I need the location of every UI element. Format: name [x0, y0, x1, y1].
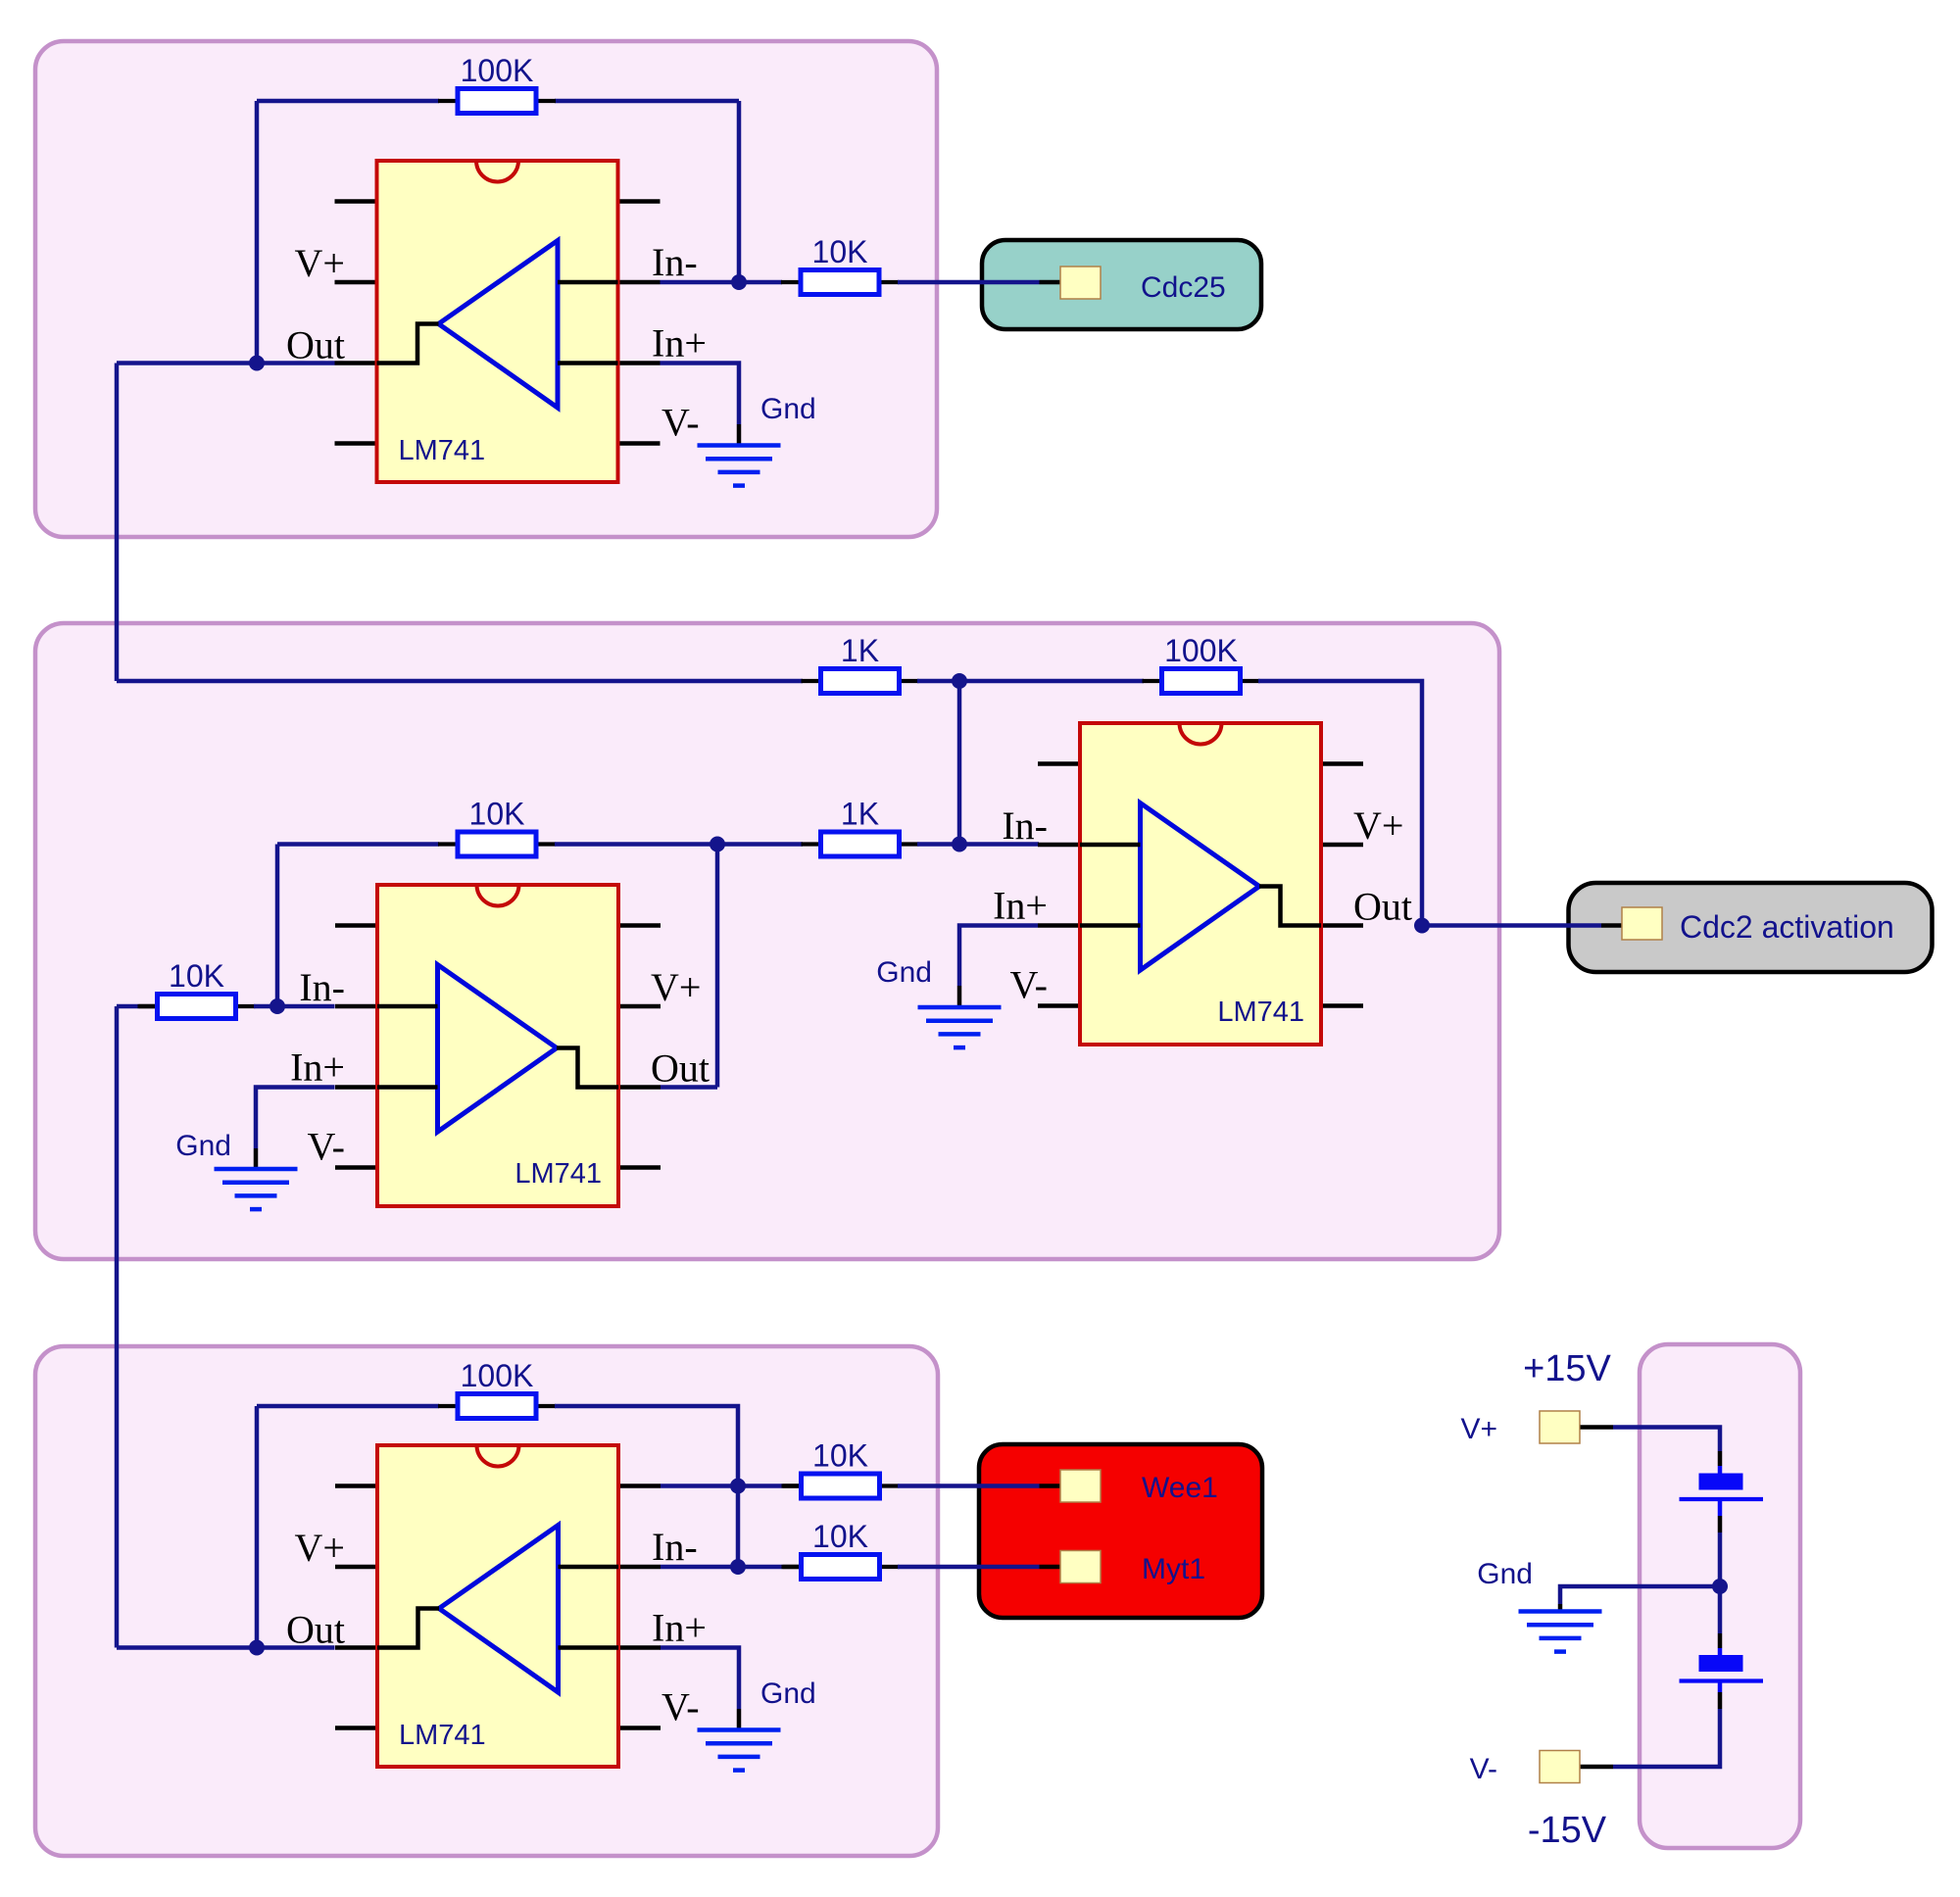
- svg-text:100K: 100K: [461, 53, 534, 88]
- module frame: power supply: [1640, 1344, 1800, 1848]
- wire R3 to node A: [917, 679, 959, 684]
- wire box2 100K run: [959, 679, 1144, 684]
- svg-text:10K: 10K: [812, 234, 868, 269]
- wire U2 feedback left vertical: [275, 845, 280, 1007]
- svg-text:In+: In+: [993, 884, 1048, 928]
- module frame: summing stage (middle): [35, 623, 1499, 1259]
- wire U4 feedback top run: [257, 1404, 439, 1409]
- svg-text:Cdc2 activation: Cdc2 activation: [1680, 909, 1894, 945]
- resistor R3: [802, 669, 919, 694]
- svg-text:In-: In-: [652, 240, 698, 284]
- svg-text:Gnd: Gnd: [175, 1130, 231, 1162]
- output block Cdc2 activation (gray): [1569, 883, 1933, 972]
- wire node D to R9: [738, 1484, 783, 1488]
- wire U2 feedback top run: [277, 842, 439, 847]
- node node B (U3 In- junction): [952, 837, 967, 852]
- wire U4 In+ to ground: [661, 1648, 740, 1710]
- resistor R1: [438, 89, 556, 114]
- resistor R5: [802, 832, 919, 856]
- op-amp U4 (LM741, facing L): [335, 1445, 661, 1767]
- wire Cdc2 black lead: [1601, 923, 1622, 928]
- wire battery1 bottom black lead: [1718, 1516, 1723, 1532]
- svg-text:Gnd: Gnd: [876, 956, 932, 989]
- wire R10 to Myt1: [898, 1565, 1040, 1570]
- resistor R10: [782, 1555, 900, 1580]
- wire V+ black lead: [1581, 1425, 1614, 1430]
- svg-text:Gnd: Gnd: [1477, 1558, 1533, 1590]
- wire U4 out row: [117, 1645, 335, 1650]
- port square Cdc2 port: [1622, 907, 1662, 940]
- node U1 In- junction: [731, 274, 747, 290]
- svg-text:In-: In-: [1002, 803, 1048, 848]
- port square V- port: [1540, 1751, 1580, 1783]
- wire node C to R5: [717, 842, 803, 847]
- wire U1 feedback top run: [257, 99, 439, 104]
- svg-text:In-: In-: [299, 965, 345, 1009]
- op-amp U2 (LM741, facing R): [335, 885, 661, 1206]
- wire U2 In+ to ground: [256, 1088, 335, 1149]
- svg-text:V-: V-: [307, 1125, 345, 1169]
- node U2 In- junction: [269, 998, 285, 1014]
- wire battery1 top black lead: [1718, 1451, 1723, 1466]
- wire U3 In+ to ground: [959, 926, 1038, 987]
- resistor R2: [781, 270, 899, 295]
- svg-text:10K: 10K: [812, 1519, 868, 1554]
- port square Myt1 port: [1060, 1551, 1101, 1583]
- svg-text:In+: In+: [652, 321, 707, 365]
- svg-text:V-: V-: [1470, 1753, 1497, 1785]
- ground ground G2 (U2 In+): [215, 1169, 298, 1209]
- port square Wee1 port: [1060, 1470, 1101, 1502]
- wire R7 to U2 In-: [254, 1004, 335, 1009]
- wire U1 feedback top run right: [555, 99, 739, 104]
- wire battery2 top blue lead: [1718, 1648, 1723, 1656]
- wire battery1 to gnd node: [1718, 1532, 1723, 1586]
- svg-text:LM741: LM741: [399, 1720, 486, 1751]
- module frame: Cdc25 inverter stage (top left): [35, 41, 937, 537]
- wire U2 In+ ground black lead: [254, 1148, 259, 1168]
- svg-text:1K: 1K: [841, 633, 879, 668]
- svg-text:Out: Out: [1353, 885, 1412, 929]
- svg-text:Out: Out: [286, 1608, 345, 1652]
- node U4 node D: [730, 1479, 746, 1494]
- ground ground G1 (U1 In+): [698, 446, 781, 486]
- wire U2 out lead: [661, 1085, 717, 1090]
- svg-text:Gnd: Gnd: [760, 1678, 816, 1710]
- wire U4 pin1 lead: [661, 1484, 738, 1488]
- wire battery2 bottom blue lead: [1718, 1683, 1723, 1693]
- svg-text:In+: In+: [290, 1046, 345, 1090]
- svg-text:V+: V+: [651, 965, 701, 1009]
- module frame: Wee1/Myt1 inverter stage (bottom left): [35, 1346, 938, 1856]
- wire U1 feedback right vertical: [737, 101, 742, 282]
- wire R4 to node C: [555, 842, 717, 847]
- wire node A down to node B: [957, 681, 962, 845]
- wire U1 out to box2 vertical: [115, 364, 120, 682]
- wire battery2 to V-: [1613, 1709, 1720, 1767]
- svg-text:V-: V-: [1009, 963, 1048, 1007]
- wire R7 left black lead: [139, 1004, 156, 1009]
- resistor R8: [438, 1394, 556, 1419]
- ground ground G3 (U3 In+): [918, 1007, 1002, 1047]
- wire U4 In- lead: [661, 1565, 738, 1570]
- wire battery2 bottom black lead: [1718, 1692, 1723, 1709]
- wire node D to In- vertical: [736, 1486, 741, 1568]
- svg-text:V+: V+: [295, 1526, 345, 1570]
- wire U3 In+ ground black lead: [957, 986, 962, 1006]
- ground ground G5 (power): [1519, 1612, 1602, 1652]
- svg-text:Wee1: Wee1: [1142, 1472, 1218, 1504]
- svg-text:Gnd: Gnd: [760, 393, 816, 425]
- wire battery2 top black lead: [1718, 1633, 1723, 1648]
- svg-text:-15V: -15V: [1528, 1810, 1607, 1851]
- svg-text:Cdc25: Cdc25: [1141, 271, 1226, 304]
- wire battery1 bottom blue lead: [1718, 1501, 1723, 1516]
- wire gnd node to battery2: [1718, 1586, 1723, 1633]
- node U4 out junction: [249, 1640, 265, 1656]
- svg-text:10K: 10K: [169, 958, 224, 994]
- svg-text:100K: 100K: [1164, 633, 1238, 668]
- wire U4 In+ ground black lead: [737, 1709, 742, 1729]
- resistor R4: [438, 832, 556, 856]
- svg-text:LM741: LM741: [399, 435, 486, 466]
- node node A (top 1K junction): [952, 673, 967, 689]
- wire V- black lead: [1581, 1765, 1614, 1770]
- wire R5 to node B: [917, 842, 959, 847]
- battery B1 plus plate: [1699, 1474, 1743, 1490]
- resistor R7: [138, 995, 256, 1019]
- svg-text:1K: 1K: [841, 797, 879, 832]
- wire node C down to U2 out: [715, 845, 720, 1088]
- battery B1 minus plate: [1680, 1497, 1764, 1501]
- svg-text:V+: V+: [1460, 1413, 1497, 1445]
- ground ground G4 (U4 In+): [698, 1730, 781, 1771]
- wire R10 left black lead: [783, 1565, 800, 1570]
- wire R9 to Wee1: [898, 1484, 1040, 1488]
- wire R2 to Cdc25: [898, 280, 1040, 285]
- resistor R6: [1143, 669, 1260, 694]
- svg-text:V-: V-: [661, 1685, 700, 1729]
- wire box2 In wire from box3: [117, 1004, 139, 1009]
- resistor R9: [782, 1474, 900, 1498]
- node node C (U2 out junction): [710, 837, 725, 852]
- wire R9 left black lead: [783, 1484, 800, 1488]
- op-amp U1 (LM741, facing L): [335, 161, 661, 482]
- port square Cdc25 port: [1060, 267, 1101, 299]
- wire U1 In- to R2: [661, 280, 783, 285]
- wire gnd node to ground: [1560, 1586, 1720, 1604]
- wire power ground black lead: [1558, 1604, 1563, 1611]
- wire Wee1 black lead: [1040, 1484, 1061, 1488]
- wire V+ to battery1: [1613, 1428, 1720, 1452]
- op-amp U3 (LM741, facing R): [1038, 723, 1363, 1045]
- wire U4 feedback left vertical: [255, 1406, 260, 1648]
- svg-text:Out: Out: [651, 1046, 710, 1091]
- svg-text:V+: V+: [295, 241, 345, 285]
- svg-text:LM741: LM741: [1217, 997, 1304, 1028]
- wire In- to R10: [738, 1565, 783, 1570]
- wire R6 to out vertical: [1258, 681, 1422, 926]
- svg-text:In+: In+: [652, 1606, 707, 1650]
- wire U1 In+ ground black lead: [737, 424, 742, 445]
- wire box2 top run from U1: [117, 679, 803, 684]
- svg-text:10K: 10K: [469, 797, 525, 832]
- output block Cdc25 (teal): [982, 240, 1261, 329]
- svg-text:+15V: +15V: [1523, 1348, 1611, 1389]
- wire U3 out to Cdc2: [1422, 923, 1601, 928]
- wire U1 out row: [117, 361, 335, 365]
- wire R2 to Cdc25 black lead: [1040, 280, 1061, 285]
- node U1 out junction: [249, 356, 265, 371]
- port square V+ port: [1540, 1411, 1580, 1443]
- svg-text:V-: V-: [661, 401, 700, 445]
- wire box3-out long vertical: [115, 1006, 120, 1648]
- node power gnd node: [1712, 1579, 1728, 1594]
- battery B2 minus plate: [1680, 1678, 1764, 1682]
- svg-text:LM741: LM741: [514, 1158, 602, 1190]
- wire battery1 top blue lead: [1718, 1466, 1723, 1474]
- node U3 out junction: [1414, 918, 1430, 934]
- battery B2 plus plate: [1699, 1655, 1743, 1672]
- wire node B to U3 In-: [959, 842, 1039, 847]
- svg-text:Out: Out: [286, 323, 345, 367]
- svg-text:100K: 100K: [461, 1358, 534, 1393]
- wire U1 feedback left vertical: [255, 101, 260, 364]
- wire Myt1 black lead: [1040, 1565, 1061, 1570]
- node U4 In- junction: [730, 1559, 746, 1575]
- wire U1 In+ to ground: [661, 364, 740, 425]
- wire R8 to right vertical: [555, 1406, 738, 1486]
- output block Wee1/Myt1 (red): [979, 1444, 1262, 1618]
- svg-text:V+: V+: [1353, 803, 1403, 848]
- svg-text:Myt1: Myt1: [1142, 1553, 1205, 1585]
- svg-text:In-: In-: [652, 1525, 698, 1569]
- svg-text:10K: 10K: [812, 1438, 868, 1474]
